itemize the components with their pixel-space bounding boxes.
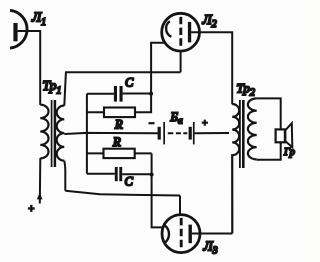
svg-text:Тр1: Тр1 bbox=[43, 78, 62, 97]
wire secondary bottom to grid of Л3 bbox=[65, 191, 180, 196]
battery Ba plus sign bbox=[202, 120, 208, 126]
tube U2 anode bar bbox=[188, 22, 191, 43]
arrow head on supply wire bbox=[37, 193, 43, 200]
svg-text:Гр: Гр bbox=[283, 147, 295, 158]
battery Ba cell plates bbox=[158, 127, 161, 140]
capacitor C2 right lead bbox=[122, 173, 151, 175]
wire Л1 to Тр1 primary top bbox=[39, 30, 41, 105]
wire anode of Л3 to Тр2 primary bottom bbox=[192, 233, 232, 235]
transformer T2 core bbox=[239, 100, 241, 168]
capacitor C1 right lead bbox=[123, 93, 152, 95]
wire cathode rail of Л3 bbox=[152, 153, 164, 227]
junction dot bbox=[149, 92, 153, 96]
capacitor C2 left lead bbox=[87, 173, 115, 175]
resistor R2 body bbox=[104, 149, 135, 158]
wire center tap of Тр1 to battery minus bbox=[64, 133, 158, 134]
transformer T2 (Тр2) primary winding bbox=[232, 104, 239, 234]
capacitor C2 plates bbox=[115, 167, 118, 181]
capacitor C1 left lead bbox=[87, 93, 114, 95]
tube U3 grid dashes bbox=[180, 218, 183, 247]
wire secondary top to node A bbox=[64, 72, 66, 105]
wire speaker bottom loop bbox=[257, 142, 281, 160]
svg-text:Л3: Л3 bbox=[203, 239, 218, 257]
tube U1 (Л1) envelope arc bbox=[10, 10, 27, 48]
wire primary bottom with arrow bbox=[39, 158, 42, 203]
tube U3 (Л3) envelope bbox=[162, 215, 200, 253]
wire grid of Л2 down to node A bbox=[180, 51, 182, 72]
wire node A: Тр1 secondary top to grid of Л2 bbox=[65, 71, 181, 73]
battery Ba minus sign bbox=[149, 122, 155, 124]
svg-text:R: R bbox=[114, 118, 123, 132]
svg-text:С: С bbox=[125, 175, 134, 189]
battery Ba dashed link bbox=[168, 132, 188, 134]
tube U2 (Л2) envelope bbox=[162, 13, 200, 51]
svg-text:Тр2: Тр2 bbox=[237, 81, 255, 99]
svg-text:Л2: Л2 bbox=[202, 12, 217, 30]
resistor R1 body bbox=[104, 108, 135, 118]
speaker Гр coil box bbox=[276, 129, 285, 142]
transformer T1 core bbox=[51, 100, 53, 167]
speaker Гр horn bbox=[285, 123, 292, 147]
wire secondary top to speaker bbox=[257, 98, 281, 129]
resistor R1 left lead bbox=[87, 111, 104, 113]
capacitor C1 plates bbox=[114, 86, 117, 102]
tube U3 cathode bbox=[165, 226, 169, 243]
svg-text:С: С bbox=[125, 76, 134, 90]
wire battery plus to Тр2 center bbox=[195, 132, 229, 134]
wire cathode rail of Л2 bbox=[135, 43, 165, 113]
svg-text:Л1: Л1 bbox=[31, 10, 46, 29]
wire secondary bottom down bbox=[64, 161, 65, 191]
transformer T2 secondary winding bbox=[248, 98, 257, 159]
plus sign bottom left bbox=[28, 205, 35, 212]
tube U3 anode bar bbox=[189, 225, 192, 244]
junction dot bbox=[150, 173, 154, 177]
transformer T1 (Тр1) primary winding bbox=[40, 105, 48, 159]
wire anode of Л2 to Тр2 primary top bbox=[191, 32, 232, 104]
tube U1 electrode bar bbox=[13, 23, 17, 41]
resistor R2 right lead bbox=[135, 152, 152, 154]
tube U2 cathode bbox=[166, 21, 171, 37]
tube U1 lead to node bbox=[18, 30, 41, 32]
wire left rail of RC networks bbox=[86, 94, 88, 174]
svg-text:Ба: Ба bbox=[170, 110, 183, 127]
transformer T1 secondary winding bbox=[57, 106, 65, 161]
resistor R2 left lead bbox=[87, 152, 104, 154]
wire grid of Л3 up to bottom line bbox=[179, 196, 181, 215]
tube U2 grid dashes bbox=[179, 17, 182, 46]
svg-text:R: R bbox=[112, 135, 121, 149]
